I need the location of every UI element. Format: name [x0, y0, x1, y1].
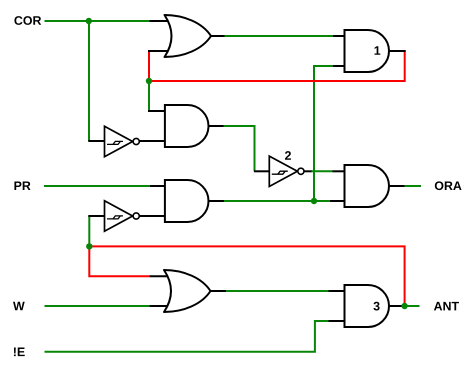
wire black stub A1 upper input — [333, 35, 345, 37]
wire red feedback A1 out loop to OR1 lower input — [149, 51, 405, 81]
wire N2 input vertical green — [88, 216, 90, 246]
label PR — [14, 181, 30, 190]
label COR — [14, 16, 41, 25]
wire ANT output green segment — [405, 305, 420, 307]
node junction on COR wire — [86, 18, 92, 24]
wire black stub N3 output — [304, 170, 312, 172]
wire black stub A4 output — [389, 185, 405, 187]
wire black stub A4 upper input — [333, 170, 345, 172]
wire black stub A5 lower input — [329, 320, 345, 322]
wire !E net to A5 lower input — [45, 321, 330, 352]
wire black stub N1 input — [88, 140, 104, 142]
wire red feedback from ANT node to lower left — [89, 246, 404, 306]
wire black N1 output to A2 lower input — [140, 140, 165, 142]
wire black stub A4 lower input — [330, 200, 345, 202]
wire black stub A5 upper input — [329, 290, 345, 292]
and-gate A4 (ORA gate) — [345, 165, 390, 207]
or-gate OR1 (top) — [165, 15, 212, 57]
node junction A3 output net — [311, 198, 317, 204]
wire COR net horizontal — [45, 20, 151, 22]
and-gate A3 (PR gate) — [165, 180, 209, 222]
wire black stub A1 lower input — [333, 65, 345, 67]
wire black stub OR1 upper input — [150, 20, 173, 22]
wire OR2 output to A5 upper input — [226, 290, 329, 292]
wire black N2 output to A3 lower input — [140, 215, 165, 217]
or-gate OR2 (bottom) — [164, 270, 211, 312]
wire black stub N3 input — [254, 170, 269, 172]
wire A2 output to N3 input — [223, 126, 255, 171]
label !E — [14, 348, 25, 357]
wire ORA output — [405, 185, 421, 187]
wire COR vertical to N1 input — [88, 21, 90, 141]
and-gate A5 (ANT gate, label 3) — [345, 285, 390, 327]
wire green below junction to A2 upper input — [148, 81, 150, 111]
node junction red loop / A2 input — [146, 78, 152, 84]
wire W net horizontal — [45, 305, 151, 307]
label 2 — [285, 151, 291, 160]
wire PR net horizontal — [44, 185, 151, 187]
and-gate A1 (top right, label 1) — [345, 30, 390, 72]
wire black stub A3 upper input (PR) — [150, 185, 165, 187]
node junction N2 input / red feedback — [86, 243, 92, 249]
inverter N2 (PR inverter) with schmitt mark and bubble — [105, 201, 140, 231]
wire black stub OR2 upper input — [150, 275, 172, 277]
wire black stub OR2 lower input — [150, 305, 172, 307]
wire black stub OR2 output — [210, 290, 226, 292]
inverter N3 (label 2) with schmitt mark and bubble — [269, 156, 304, 186]
wire black stub OR1 lower input — [148, 50, 172, 52]
and-gate A2 (middle, COR inverter pair) — [165, 105, 209, 147]
wire A3 output to A4 lower input — [224, 200, 331, 202]
wire black stub A2 upper input — [148, 110, 165, 112]
label W — [13, 302, 25, 311]
wire black stub A3 output — [209, 200, 225, 202]
wire black stub A2 output — [209, 125, 224, 127]
node junction ANT output — [401, 303, 407, 309]
wire black stub A1 output — [389, 50, 406, 52]
wire black stub OR1 output — [211, 35, 225, 37]
wire black stub N2 input — [88, 215, 104, 217]
wire black stub A5 output — [389, 305, 405, 307]
inverter N1 (COR inverter) with schmitt mark and bubble — [105, 126, 140, 156]
label 3 — [373, 302, 379, 311]
label 1 — [375, 46, 381, 55]
wire vertical net x=314 from A1 lower input to A3 output node — [314, 66, 334, 201]
label ORA — [435, 181, 462, 190]
label ANT — [434, 302, 459, 311]
wire OR1 output to A1 input net — [224, 35, 334, 37]
wire N3 output green segment — [311, 170, 333, 172]
